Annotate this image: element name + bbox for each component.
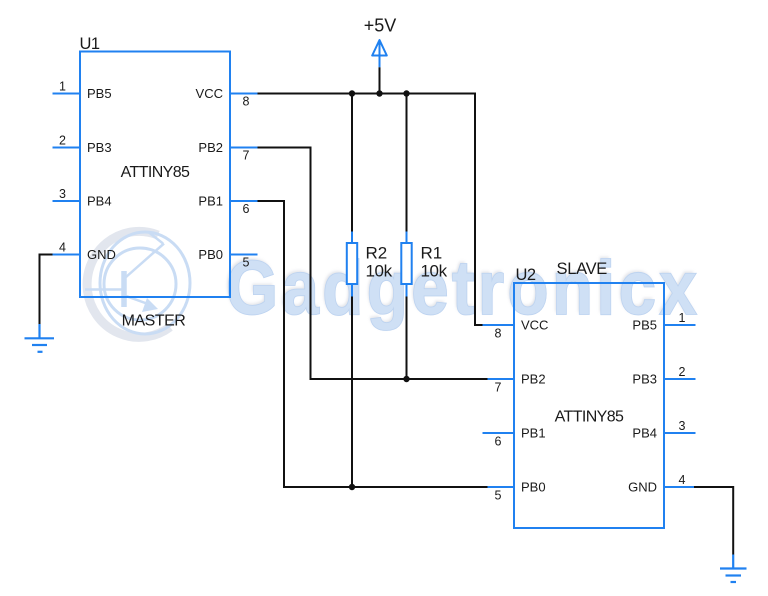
junction dot R1-SCL wire xyxy=(403,376,409,382)
U2 pin 3 PB4 xyxy=(632,419,695,440)
U1 pin 4 GND xyxy=(53,241,116,262)
svg-text:8: 8 xyxy=(495,327,502,341)
junction dot rail-R2 xyxy=(349,90,355,96)
svg-text:GND: GND xyxy=(628,480,657,495)
U2 pin 7 PB2 xyxy=(483,372,546,395)
svg-text:PB1: PB1 xyxy=(521,426,546,441)
svg-text:PB4: PB4 xyxy=(87,194,112,209)
svg-text:PB1: PB1 xyxy=(198,194,223,209)
svg-text:U1: U1 xyxy=(80,35,100,53)
svg-text:PB2: PB2 xyxy=(198,140,223,155)
svg-text:5: 5 xyxy=(495,489,502,503)
svg-text:VCC: VCC xyxy=(196,86,223,101)
wire U1 PB2 to U2 PB2 (SCL) xyxy=(258,148,488,380)
svg-text:PB5: PB5 xyxy=(632,318,657,333)
U2 pin 1 PB5 xyxy=(632,311,695,332)
U2 pin 8 VCC xyxy=(483,318,549,341)
svg-text:1: 1 xyxy=(679,311,686,325)
wire U1 GND to ground xyxy=(40,255,53,325)
svg-text:2: 2 xyxy=(59,134,66,148)
svg-text:3: 3 xyxy=(679,419,686,433)
junction dot rail-R1 xyxy=(403,90,409,96)
U1 pin 7 PB2 xyxy=(198,140,257,163)
resistor R2 xyxy=(347,94,393,488)
U2 pin 4 GND xyxy=(628,473,695,494)
svg-text:VCC: VCC xyxy=(521,318,548,333)
svg-text:7: 7 xyxy=(495,381,502,395)
U2 pin 5 PB0 xyxy=(483,480,546,503)
svg-text:PB0: PB0 xyxy=(198,247,223,262)
wire U2 GND to ground xyxy=(694,487,733,555)
svg-text:6: 6 xyxy=(495,435,502,449)
svg-text:PB3: PB3 xyxy=(87,140,112,155)
wire +5V stem xyxy=(379,67,381,93)
IC U2 body xyxy=(514,283,664,528)
svg-text:PB4: PB4 xyxy=(632,426,657,441)
svg-text:10k: 10k xyxy=(366,262,393,281)
svg-text:ATTINY85: ATTINY85 xyxy=(555,409,624,426)
U2 pin 6 PB1 xyxy=(483,426,546,449)
svg-text:5: 5 xyxy=(243,256,250,270)
wire VCC rail U1 pin8 to U2 pin8 xyxy=(258,94,483,326)
svg-text:SLAVE: SLAVE xyxy=(557,260,608,278)
svg-text:GND: GND xyxy=(87,247,116,262)
U1 pin 5 PB0 xyxy=(198,247,257,270)
ground symbol right xyxy=(720,555,747,583)
svg-text:PB2: PB2 xyxy=(521,372,546,387)
U1 pin 8 VCC xyxy=(196,86,258,109)
svg-text:3: 3 xyxy=(59,187,66,201)
svg-text:R2: R2 xyxy=(366,244,388,263)
svg-text:7: 7 xyxy=(243,149,250,163)
svg-text:10k: 10k xyxy=(421,262,448,281)
svg-text:PB3: PB3 xyxy=(632,372,657,387)
svg-text:R1: R1 xyxy=(421,244,443,263)
wire U1 PB1 to U2 PB0 xyxy=(258,201,488,487)
svg-text:2: 2 xyxy=(679,365,686,379)
junction dot rail-5V xyxy=(376,90,382,96)
svg-text:U2: U2 xyxy=(516,266,536,284)
U1 pin 6 PB1 xyxy=(198,194,257,217)
svg-text:+5V: +5V xyxy=(364,16,397,36)
svg-text:6: 6 xyxy=(243,202,250,216)
U1 pin 2 PB3 xyxy=(53,134,112,155)
svg-text:ATTINY85: ATTINY85 xyxy=(121,164,190,181)
ground symbol left xyxy=(25,324,55,352)
svg-text:1: 1 xyxy=(59,80,66,94)
svg-text:PB5: PB5 xyxy=(87,86,112,101)
U2 pin 2 PB3 xyxy=(632,365,695,386)
U1 pin 3 PB4 xyxy=(53,187,112,208)
resistor R1 xyxy=(401,94,447,380)
power +5V arrow symbol xyxy=(372,40,387,67)
IC U1 body xyxy=(80,52,230,298)
svg-text:PB0: PB0 xyxy=(521,480,546,495)
svg-text:8: 8 xyxy=(243,95,250,109)
svg-text:MASTER: MASTER xyxy=(122,313,186,330)
watermark logo xyxy=(85,231,190,337)
U1 pin 1 PB5 xyxy=(53,80,112,101)
svg-text:4: 4 xyxy=(59,241,66,255)
junction dot R2-PB0 wire xyxy=(349,484,355,490)
svg-text:4: 4 xyxy=(679,473,686,487)
